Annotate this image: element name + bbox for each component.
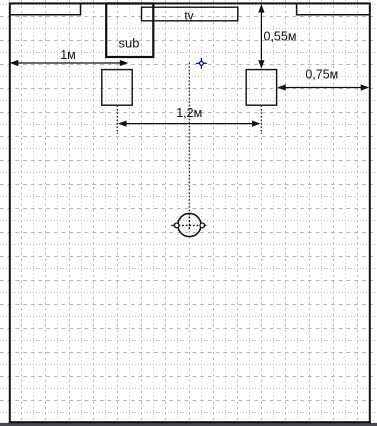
svg-text:0,55м: 0,55м — [264, 30, 297, 44]
svg-text:1,2м: 1,2м — [176, 106, 202, 120]
svg-text:1м: 1м — [60, 48, 76, 62]
svg-text:0,75м: 0,75м — [305, 68, 338, 82]
svg-text:sub: sub — [119, 36, 140, 51]
svg-text:tv: tv — [184, 9, 193, 23]
